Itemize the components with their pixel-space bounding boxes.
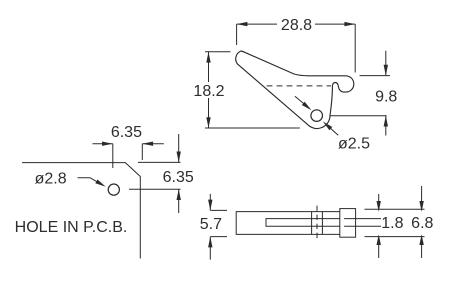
svg-text:5.7: 5.7 [200,216,222,233]
svg-text:ø2.8: ø2.8 [35,171,67,188]
svg-text:6.35: 6.35 [111,124,142,141]
svg-text:28.8: 28.8 [281,17,312,34]
svg-text:9.8: 9.8 [375,88,397,105]
svg-text:18.2: 18.2 [193,83,224,100]
svg-text:ø2.5: ø2.5 [338,135,370,152]
svg-text:1.8: 1.8 [381,215,403,232]
svg-text:6.8: 6.8 [411,215,433,232]
svg-text:6.35: 6.35 [163,169,194,186]
svg-text:HOLE IN P.C.B.: HOLE IN P.C.B. [15,219,128,236]
